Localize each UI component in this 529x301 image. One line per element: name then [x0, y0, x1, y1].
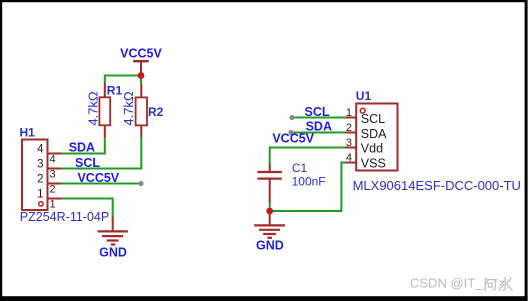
svg-text:VCC5V: VCC5V	[272, 132, 314, 146]
wire H1.1 to GND	[62, 199, 113, 219]
H1 pin 1 stub	[48, 198, 62, 200]
wire VCC5V node to R1 top	[105, 76, 141, 84]
svg-text:4.7kΩ: 4.7kΩ	[86, 91, 101, 126]
dangling wire end dot (left VCC5V)	[138, 181, 143, 186]
svg-text:3: 3	[50, 168, 56, 180]
U1 pin 2 stub	[346, 132, 357, 134]
svg-text:4: 4	[346, 152, 352, 164]
svg-text:3: 3	[37, 158, 43, 170]
svg-text:C1: C1	[292, 161, 308, 175]
svg-text:U1: U1	[356, 89, 372, 103]
IC U1 body	[356, 104, 397, 171]
U1 pin 3 stub	[346, 147, 357, 149]
connector H1 body	[22, 140, 48, 211]
svg-text:SCL: SCL	[361, 112, 385, 126]
svg-text:1: 1	[50, 198, 56, 210]
resistor R1	[99, 83, 110, 138]
svg-text:100nF: 100nF	[292, 175, 326, 189]
wire VCC5V to U1.Vdd and C1 top	[270, 148, 346, 165]
dangling wire end dot (SCL)	[289, 115, 294, 120]
ground symbol (left)	[98, 217, 128, 245]
junction dot at GND node	[266, 208, 273, 215]
wire VCC5V node to R2 top	[140, 77, 142, 84]
svg-text:1: 1	[346, 107, 352, 119]
U1 pin 1 stub	[346, 117, 357, 119]
svg-text:H1: H1	[20, 126, 36, 140]
svg-text:SDA: SDA	[69, 140, 95, 154]
svg-text:2: 2	[50, 183, 56, 195]
svg-text:CSDN @IT_: CSDN @IT_	[410, 276, 483, 291]
svg-text:SCL: SCL	[75, 156, 100, 170]
ground symbol (right)	[254, 211, 285, 238]
U1 pin-1 indicator circle	[360, 108, 365, 113]
wire C1 bottom to GND node	[269, 203, 271, 211]
wire SDA (H1.4 to R1 bottom)	[62, 138, 105, 153]
svg-text:1: 1	[37, 188, 43, 200]
svg-text:GND: GND	[256, 238, 284, 252]
H1 pin 4 stub	[48, 153, 62, 155]
svg-text:MLX90614ESF-DCC-000-TU: MLX90614ESF-DCC-000-TU	[353, 178, 521, 193]
svg-text:4.7kΩ: 4.7kΩ	[121, 91, 136, 126]
U1 pin 4 stub	[346, 162, 357, 164]
svg-text:2: 2	[346, 122, 352, 134]
resistor R2	[136, 84, 147, 137]
power port VCC5V (top)	[133, 61, 148, 73]
svg-text:VCC5V: VCC5V	[120, 47, 162, 61]
wire U1.VSS to GND node	[270, 163, 346, 212]
svg-text:VSS: VSS	[361, 157, 386, 171]
svg-text:PZ254R-11-04P: PZ254R-11-04P	[20, 210, 109, 224]
svg-text:4: 4	[37, 143, 44, 155]
junction dot at VCC5V node	[138, 72, 145, 79]
svg-text:SCL: SCL	[305, 105, 330, 119]
capacitor C1	[257, 164, 281, 203]
svg-text:Vdd: Vdd	[361, 142, 383, 156]
H1 pin 3 stub	[48, 168, 62, 170]
watermark glyph 水	[499, 277, 513, 291]
svg-text:VCC5V: VCC5V	[77, 171, 119, 185]
svg-text:3: 3	[346, 137, 352, 149]
svg-text:R2: R2	[148, 105, 164, 119]
dangling wire end dot (SDA)	[288, 130, 293, 135]
wire VCC5V (H1.2)	[62, 183, 141, 185]
watermark glyph 阿	[485, 278, 497, 291]
wire SDA (right)	[291, 132, 346, 134]
svg-text:GND: GND	[99, 246, 127, 260]
wire SCL (right)	[292, 117, 346, 119]
svg-text:4: 4	[50, 153, 56, 165]
svg-text:2: 2	[37, 173, 43, 185]
svg-text:SDA: SDA	[361, 127, 387, 141]
H1 pin 2 stub	[48, 183, 62, 185]
H1 pin-1 indicator circle	[39, 202, 43, 206]
wire SCL (H1.3 to R2 bottom)	[62, 137, 142, 169]
